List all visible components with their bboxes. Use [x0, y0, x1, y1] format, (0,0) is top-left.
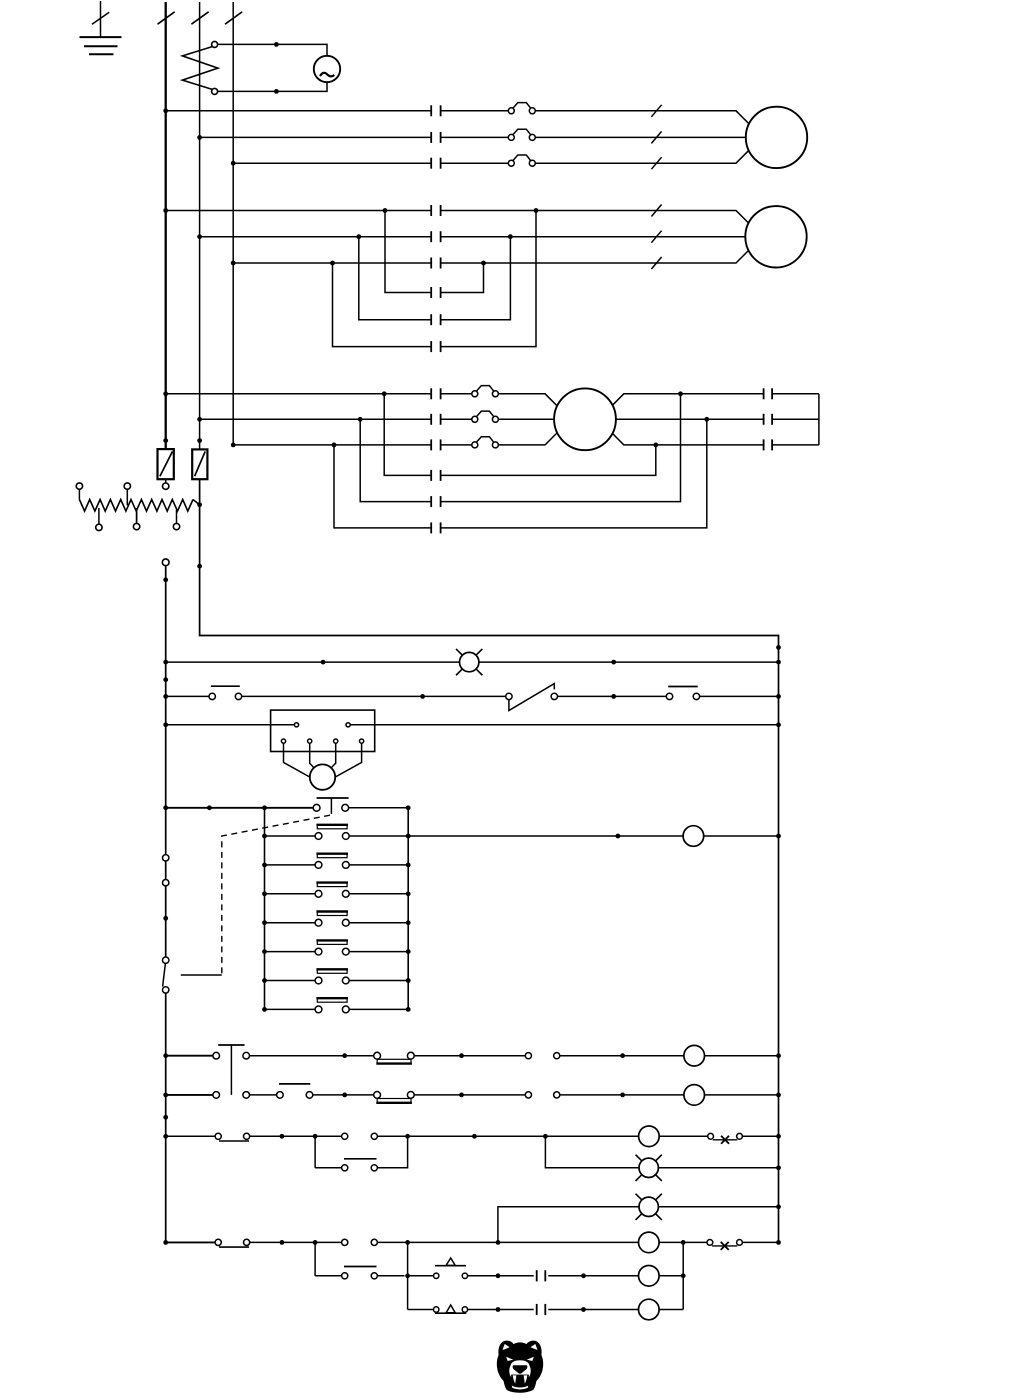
wire M3 phase B into motor: [498, 418, 585, 420]
wire rung 3 right: [350, 724, 778, 726]
drum switch contact D6: [315, 969, 349, 984]
contactor contact M2F-A: [431, 205, 440, 216]
wire L2 bus: [199, 2, 201, 449]
wire marker slash M1 C: [651, 157, 661, 169]
contactor contact M1-C: [431, 158, 440, 169]
disconnect slash L3: [225, 12, 242, 24]
wire bank level 4 left: [265, 922, 316, 924]
junction (rung C / branch up): [405, 1134, 410, 1139]
wire rung B segment 3: [313, 1094, 374, 1096]
wire rung 2 segment 4: [700, 695, 779, 697]
junction rung B c: [620, 1093, 625, 1098]
relay contact CR2 (NO): [342, 1133, 378, 1139]
wire rung 1: [166, 661, 460, 663]
wire bank level 1 left: [265, 835, 316, 837]
junction (L3 / M2 phase C): [231, 261, 236, 266]
wire M3 phase A into motor: [498, 394, 567, 416]
junction rung 2 a: [420, 694, 425, 699]
junction (M2 reversing loop 3 left): [330, 261, 335, 266]
junction (right rail / rung B): [776, 1093, 781, 1098]
junction on left rail (X1): [163, 577, 168, 582]
junction (L3 corner / M3 phase C): [231, 443, 236, 448]
junction rung 1 a: [321, 660, 326, 665]
wire bank level 2 right: [349, 864, 408, 866]
junction (M3 loop 2 right): [678, 391, 683, 396]
drum switch contact D7: [315, 998, 349, 1013]
wire rung I segment 1: [408, 1309, 434, 1311]
wire rung F segment 5: [742, 1241, 778, 1243]
wire M2 phase C segment 2: [441, 238, 762, 264]
wire left rail lower: [165, 993, 167, 1242]
wire rung 1 right: [479, 661, 779, 663]
contactor contact M3X-1: [431, 470, 440, 481]
wire bank right vertical: [407, 808, 409, 1010]
junction (M3 loop 1 right): [653, 443, 658, 448]
relay contact CR5 (NO): [342, 1239, 378, 1245]
junction (bank right / level 6): [406, 978, 411, 983]
contactor contact M2R-2: [431, 314, 440, 325]
junction (L1 / M3 phase A): [163, 391, 168, 396]
junction (L1 / M2 phase A): [163, 208, 168, 213]
wire coil bus vertical: [682, 1242, 684, 1309]
wire bank level 2 left: [265, 864, 316, 866]
wire branch C down left: [314, 1136, 316, 1168]
junction (left rail / rung F): [163, 1240, 168, 1245]
wire M3 phase B motor to wye contact: [585, 418, 764, 420]
wire rung B segment 4: [560, 1094, 684, 1096]
pushbutton PB2 (NC): [666, 687, 699, 700]
flow switch FS1: [708, 1133, 743, 1143]
fuse FU1: [158, 449, 174, 489]
junction (left rail / rung 1): [163, 660, 168, 665]
resistor R1 (tapped rheostat): [76, 483, 199, 531]
junction rung I a: [496, 1307, 501, 1312]
wire M1 phase C segment 1: [233, 162, 431, 164]
wire branch G horizontal: [315, 1275, 342, 1277]
motor M4 (timer motor): [310, 764, 335, 789]
junction on left rail (below rung 1): [163, 677, 168, 682]
wire rung B segment 1: [166, 1094, 213, 1096]
wire rung B segment 5: [705, 1094, 779, 1096]
junction (right rail / rung 3): [776, 722, 781, 727]
wire M2 phase A segment 1: [166, 210, 432, 212]
wire M2 loop 1 right rise: [441, 263, 484, 293]
junction (left rail / rung 4): [163, 805, 168, 810]
limit switch LS1: [506, 684, 558, 711]
junction (bank left / level 1): [262, 834, 267, 839]
receptacle box J1: [271, 710, 375, 751]
wire M3 phase C into motor: [498, 423, 567, 445]
wire coil CR1 to right rail: [704, 835, 779, 837]
relay coil CR3: [639, 1126, 660, 1147]
junction (bank right vertical / rung 4): [406, 805, 411, 810]
junction rung C a: [280, 1134, 285, 1139]
wire rung 4 right: [349, 807, 409, 809]
wire M2 loop 2 left drop: [359, 237, 431, 320]
wire rung B segment 3: [414, 1094, 525, 1096]
junction (bank left / level 2): [262, 863, 267, 868]
pilot light PL3: [636, 1194, 662, 1220]
timer contact TC1 (bridge): [374, 1052, 414, 1063]
wire M3 phase B to wye bar: [772, 418, 819, 420]
wire rung A segment 3: [414, 1055, 525, 1057]
wire lamp E to rail: [659, 1206, 779, 1208]
wire branch G down left: [314, 1242, 316, 1275]
wire rung F segment 1: [166, 1241, 215, 1243]
junction (right rail top): [776, 645, 781, 650]
junction (R1 wiper / L2): [197, 502, 202, 507]
relay contact CR-A (NO): [525, 1053, 560, 1059]
thermostat TS1 (NO): [434, 1258, 468, 1279]
drum switch contact D5: [315, 940, 349, 955]
drum switch contact D2: [315, 854, 349, 869]
logo (bear head): [497, 1341, 543, 1392]
junction (bank left / level 7): [262, 1007, 267, 1012]
junction rung F b: [496, 1240, 501, 1245]
wire M3 phase A motor to wye contact: [602, 394, 764, 416]
overload heater OL3-A: [472, 386, 499, 397]
wire M1 phase B segment 2: [441, 136, 509, 138]
relay contact CR7 (NC): [342, 1267, 378, 1279]
relay contact CR-B (NO): [525, 1092, 560, 1098]
junction (right rail / lamp E): [776, 1204, 781, 1209]
wire marker slash M2 C: [651, 257, 661, 269]
junction rung A b: [459, 1053, 464, 1058]
selector contact SS2 (closed): [215, 1239, 250, 1247]
disconnect slash L1: [158, 12, 175, 24]
wire branch C up right: [377, 1136, 407, 1168]
wire rung G2 segment 3: [548, 1275, 638, 1277]
junction (rung F / branch G down): [313, 1240, 318, 1245]
wire lamp D to rail: [659, 1167, 779, 1169]
wire M2 loop 3 right rise: [441, 211, 536, 347]
junction (bank left / level 3): [262, 891, 267, 896]
wire bank level 7 right: [349, 1008, 408, 1010]
wire M3 phase A segment 2: [441, 393, 472, 395]
junction rung 4 a: [207, 805, 212, 810]
switch contact S2 (rail interlock, open): [163, 957, 169, 993]
wire bank level 5 left: [265, 951, 316, 953]
contactor contact M2R-1: [431, 287, 440, 298]
drum switch contact D1: [315, 825, 349, 840]
junction (bank right / level 2): [406, 863, 411, 868]
wire bank level 1 right: [349, 835, 408, 837]
junction (right rail / drum rung): [776, 834, 781, 839]
transformer primary winding T1: [182, 41, 218, 94]
junction (M3 loop 3 right): [704, 417, 709, 422]
junction (rung C / branch down): [313, 1134, 318, 1139]
wire M3 loop 1 left drop: [384, 394, 431, 476]
flow switch FS2: [707, 1240, 742, 1250]
wire bank level 3 right: [349, 893, 408, 895]
wire rung 2 segment 2: [242, 695, 506, 697]
junction (L2 feeder): [197, 564, 202, 569]
wire M3 phase A segment 1: [166, 393, 432, 395]
wire T1 H2 to G1: [218, 82, 327, 91]
wire bank level 7 left: [265, 1008, 316, 1010]
wire bank level 4 right: [349, 922, 408, 924]
junction (L2 / M1 phase B): [197, 135, 202, 140]
junction (L2 / M3 phase B): [197, 417, 202, 422]
wire M2 loop 3 left drop: [333, 263, 432, 347]
junction (right rail / lamp D): [776, 1165, 781, 1170]
wire lamp D feed: [545, 1136, 639, 1168]
motor M1: [746, 107, 807, 168]
junction (M2 reversing loop 2 left): [356, 234, 361, 239]
pushbutton PB4 (two-pole): [213, 1045, 250, 1098]
wire rung 2 segment 1: [166, 695, 209, 697]
wire bank level 6 left: [265, 980, 316, 982]
wire marker slash M2 A: [651, 205, 661, 217]
junction (L1 / M1 phase A): [163, 108, 168, 113]
wire branch C horizontal: [315, 1167, 342, 1169]
contactor contact M3S-C (wye): [764, 439, 773, 450]
wire M3 phase C to wye bar: [772, 444, 819, 446]
wire J1-6 to motor M4: [334, 743, 362, 778]
contactor coil M2F: [684, 1045, 705, 1066]
AC source G1: [314, 56, 340, 82]
wire wye shorting bar: [818, 394, 820, 445]
terminal J1-5: [334, 739, 338, 743]
wire marker slash M1 B: [651, 131, 661, 143]
wire rung 4 left: [166, 807, 314, 809]
contactor contact M2F-C: [431, 258, 440, 269]
wire M3 phase A to wye bar: [772, 393, 819, 395]
wire M3 phase B segment 2: [441, 418, 472, 420]
terminal J1-1: [294, 723, 298, 727]
junction (M2 reversing loop 2 right): [508, 234, 513, 239]
junction (bank right / level 4): [406, 920, 411, 925]
terminal J1-2: [346, 723, 350, 727]
wire rung A segment 1: [166, 1055, 213, 1057]
junction rung A c: [620, 1053, 625, 1058]
contactor contact M3X-3: [431, 522, 440, 533]
wire rung 2 segment 3: [558, 695, 667, 697]
terminal J1-6: [360, 739, 364, 743]
wire bank level 6 right: [349, 980, 408, 982]
thermostat TS2 (NC): [434, 1305, 468, 1313]
contactor contact M2F-B: [431, 231, 440, 242]
wire bank level 5 right: [349, 951, 408, 953]
junction (right rail / rung F): [776, 1240, 781, 1245]
junction (left rail / rung A): [163, 1053, 168, 1058]
junction (coil bus / rung G2): [681, 1273, 686, 1278]
wire rung G2 segment 1: [408, 1275, 434, 1277]
wire L2 control feeder: [200, 479, 779, 1242]
wire J1-4 to motor M4: [310, 743, 316, 770]
wire L3 bus: [232, 2, 234, 445]
contactor contact M3S-B (wye): [764, 414, 773, 425]
terminal J1-3: [281, 739, 285, 743]
junction H2: [274, 89, 279, 94]
selector contact SS1 (closed): [215, 1133, 250, 1141]
relay coil CR9: [639, 1299, 660, 1320]
junction (M3 loop 3 left): [332, 443, 337, 448]
pushbutton PB1 (NC): [209, 686, 242, 699]
contactor contact M3-aux1: [537, 1270, 546, 1281]
wire T1 H1 to G1: [218, 44, 327, 55]
junction drum rung a: [616, 834, 621, 839]
junction (M3 loop 1 left): [382, 391, 387, 396]
contactor contact M3S-A (wye): [764, 388, 773, 399]
switch contact S1 (rail interlock, closed): [163, 855, 169, 957]
junction rung A a: [342, 1053, 347, 1058]
wire M2 phase A segment 2: [441, 211, 762, 237]
drum switch contact D4: [315, 912, 349, 927]
contactor coil M2R: [684, 1085, 705, 1106]
wire M1 phase A segment 3: [535, 111, 762, 137]
junction rung B a: [342, 1093, 347, 1098]
wire rung B segment 2: [250, 1094, 277, 1096]
contactor contact M3-aux2: [537, 1304, 546, 1315]
relay coil CR6: [639, 1232, 660, 1253]
junction (bank right / level 5): [406, 949, 411, 954]
wire marker slash M1 A: [651, 105, 661, 117]
wire rung A segment 5: [705, 1055, 779, 1057]
wire marker slash M2 B: [651, 231, 661, 243]
wire rung I segment 2: [468, 1309, 534, 1311]
junction rung I b: [581, 1307, 586, 1312]
junction (left rail / rung B): [163, 1093, 168, 1098]
wire bank level 3 left: [265, 893, 316, 895]
overload heater OL1-C: [508, 155, 535, 166]
contactor contact M1-B: [431, 132, 440, 143]
overload heater OL1-A: [508, 103, 535, 114]
junction rung G2 b: [581, 1273, 586, 1278]
junction (M2 reversing loop 1 left): [383, 208, 388, 213]
wire rung F segment 3: [377, 1241, 638, 1243]
junction (right rail / rung 2): [776, 694, 781, 699]
junction (bank left / level 5): [262, 949, 267, 954]
wire M2 phase C segment 1: [233, 262, 431, 264]
drum switch contact D3: [315, 883, 349, 898]
wire rung G2 segment 4: [659, 1275, 683, 1277]
junction (L2 / M2 phase B): [197, 234, 202, 239]
pilot light PL1: [456, 649, 482, 675]
junction (bank right / level 7): [406, 1007, 411, 1012]
contactor contact M3X-2: [431, 496, 440, 507]
wire M3 phase B segment 1: [200, 418, 432, 420]
wire M2 phase B segment 1: [200, 236, 432, 238]
junction on left rail (below rung B): [163, 1115, 168, 1120]
wire rung C segment 4: [659, 1135, 708, 1137]
wire left rail upper: [165, 566, 167, 855]
wire L1 bus: [165, 2, 167, 449]
pushbutton PB5 (NC): [277, 1084, 313, 1098]
mechanical linkage arm: [181, 974, 222, 976]
junction (bank left / level 6): [262, 978, 267, 983]
timer contact TC2 (bridge): [374, 1092, 414, 1103]
junction (bank right / level 1): [406, 834, 411, 839]
junction (L2 above fuse FU2): [197, 438, 202, 443]
wire M3 loop 2 left drop: [360, 419, 431, 501]
pilot light PL2: [636, 1155, 662, 1181]
wire M3 loop 3 left drop: [334, 445, 431, 528]
wire M1 phase C segment 3: [535, 137, 762, 163]
junction (vertical / rung G2): [405, 1273, 410, 1278]
junction (right rail / rung 1): [776, 660, 781, 665]
junction (right rail / rung C): [776, 1134, 781, 1139]
junction on left rail: [163, 916, 168, 921]
overload heater OL1-B: [508, 129, 535, 140]
wire rung I segment 3: [548, 1309, 638, 1311]
wire branch G up right: [377, 1275, 404, 1277]
contactor contact M3-B: [431, 414, 440, 425]
motor M3: [554, 388, 616, 450]
junction (bank right / level 3): [406, 891, 411, 896]
junction (rung C / lamp D feed): [543, 1134, 548, 1139]
wire thermostat rung feed vertical: [407, 1242, 409, 1309]
contactor contact M2R-3: [431, 341, 440, 352]
junction rung B b: [459, 1093, 464, 1098]
junction rung 2 b: [611, 694, 616, 699]
wire M1 phase B segment 1: [200, 136, 432, 138]
relay contact CR4 (NC): [342, 1159, 378, 1171]
junction (left rail / rung 2): [163, 694, 168, 699]
wire M1 phase B segment 3: [535, 136, 760, 138]
overload heater OL3-B: [472, 411, 499, 422]
wire M3 phase C segment 1: [233, 444, 431, 446]
wire rung C segment 3: [377, 1135, 638, 1137]
disconnect slash L2: [191, 12, 208, 24]
overload heater OL3-C: [472, 437, 499, 448]
wire rung C segment 5: [742, 1135, 778, 1137]
junction (rung F / thermostat rung feed): [405, 1240, 410, 1245]
contactor contact M3-C: [431, 439, 440, 450]
wire bank left vertical: [264, 808, 266, 1010]
wire rung I segment 4: [659, 1309, 683, 1311]
wire M2 loop 2 right rise: [441, 237, 511, 320]
junction rung F a: [280, 1240, 285, 1245]
wire J1-3 to motor M4: [284, 743, 312, 778]
junction (L1 above fuse FU1): [163, 438, 168, 443]
wire rung 3 left: [166, 724, 295, 726]
junction (L3 / M1 phase C): [231, 161, 236, 166]
ground: [80, 1, 122, 54]
wire M3 loop 3 right rise: [441, 419, 707, 528]
junction (rung F / coil bus): [681, 1240, 686, 1245]
junction (M2 reversing loop 3 right): [534, 208, 539, 213]
junction (right rail / rung A): [776, 1053, 781, 1058]
relay coil CR1: [683, 826, 704, 847]
relay coil CR8: [639, 1266, 660, 1287]
junction (left rail / rung C): [163, 1134, 168, 1139]
wire M3 loop 2 right rise: [441, 394, 681, 502]
wire M1 phase A segment 1: [166, 110, 432, 112]
wire M2 loop 1 left drop: [385, 211, 431, 293]
pushbutton PB3 (NO, drum trip): [313, 798, 348, 814]
wire rung F segment 4: [659, 1241, 707, 1243]
wire lamp E feed: [498, 1207, 639, 1243]
junction H1: [274, 42, 279, 47]
motor M2: [745, 206, 806, 267]
wire rung A segment 2: [250, 1055, 374, 1057]
wire M3 loop 1 right rise: [441, 445, 656, 476]
wire drum level 1 to coil M: [408, 835, 683, 837]
wire M1 phase A segment 2: [441, 110, 509, 112]
terminal (control hot lead X1): [162, 559, 169, 566]
junction (left rail / rung 3): [163, 722, 168, 727]
wire rung C segment 1: [166, 1135, 215, 1137]
wire M2 phase B segment 2: [441, 236, 760, 238]
junction rung G2 a: [496, 1273, 501, 1278]
junction rung C b: [472, 1134, 477, 1139]
junction (bank left vertical / rung 4): [262, 805, 267, 810]
wire rung C segment 2: [250, 1135, 342, 1137]
junction (M2 reversing loop 1 right): [481, 261, 486, 266]
wire rung G2 segment 2: [468, 1275, 534, 1277]
wire rung A segment 4: [560, 1055, 684, 1057]
